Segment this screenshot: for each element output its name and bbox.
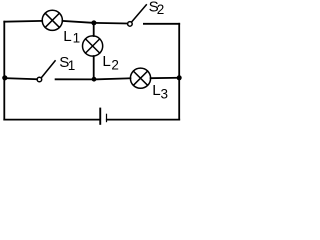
wire L1 to junction A (62, 21, 94, 23)
label S1 (59, 54, 75, 73)
wire left edge (3, 22, 5, 120)
svg-text:L: L (63, 28, 71, 45)
switch S2 contact circle (128, 22, 133, 27)
switch S1 blade (42, 61, 56, 78)
battery cell: long plate (99, 108, 101, 125)
switch S1 contact circle (37, 77, 42, 82)
svg-text:1: 1 (68, 58, 76, 73)
wire L3 to right edge (151, 77, 180, 79)
svg-text:2: 2 (157, 2, 165, 17)
junction dot right edge (177, 75, 182, 80)
switch S2 blade (132, 5, 146, 22)
wire battery to bottom-left corner (4, 119, 99, 121)
battery cell: short plate (106, 114, 107, 123)
label L2 (102, 53, 119, 73)
junction dot left edge (2, 75, 7, 80)
wire S1 to junction B (56, 78, 94, 80)
wire S2 to top-right corner (144, 23, 179, 25)
lamp L1 (42, 10, 62, 30)
svg-text:3: 3 (161, 87, 169, 102)
wire junction A down to lamp L2 (93, 23, 95, 36)
label S2 (149, 0, 165, 17)
wire top-left horizontal (4, 20, 42, 23)
junction dot node A (91, 20, 96, 25)
svg-text:1: 1 (73, 30, 81, 45)
wire bottom right to battery (107, 119, 179, 121)
svg-text:L: L (102, 53, 110, 70)
svg-text:2: 2 (111, 58, 119, 73)
wire right edge (178, 24, 180, 120)
wire L2 down to junction B (93, 56, 95, 79)
wire junction A to switch S2 (94, 22, 127, 25)
junction dot node B (92, 77, 97, 82)
label L3 (152, 82, 168, 102)
lamp L2 (83, 36, 103, 56)
label L1 (63, 28, 80, 45)
lamp L3 (130, 68, 150, 88)
svg-text:L: L (152, 82, 160, 99)
wire junction B to lamp L3 (94, 78, 130, 79)
wire left edge to switch S1 (4, 78, 37, 79)
